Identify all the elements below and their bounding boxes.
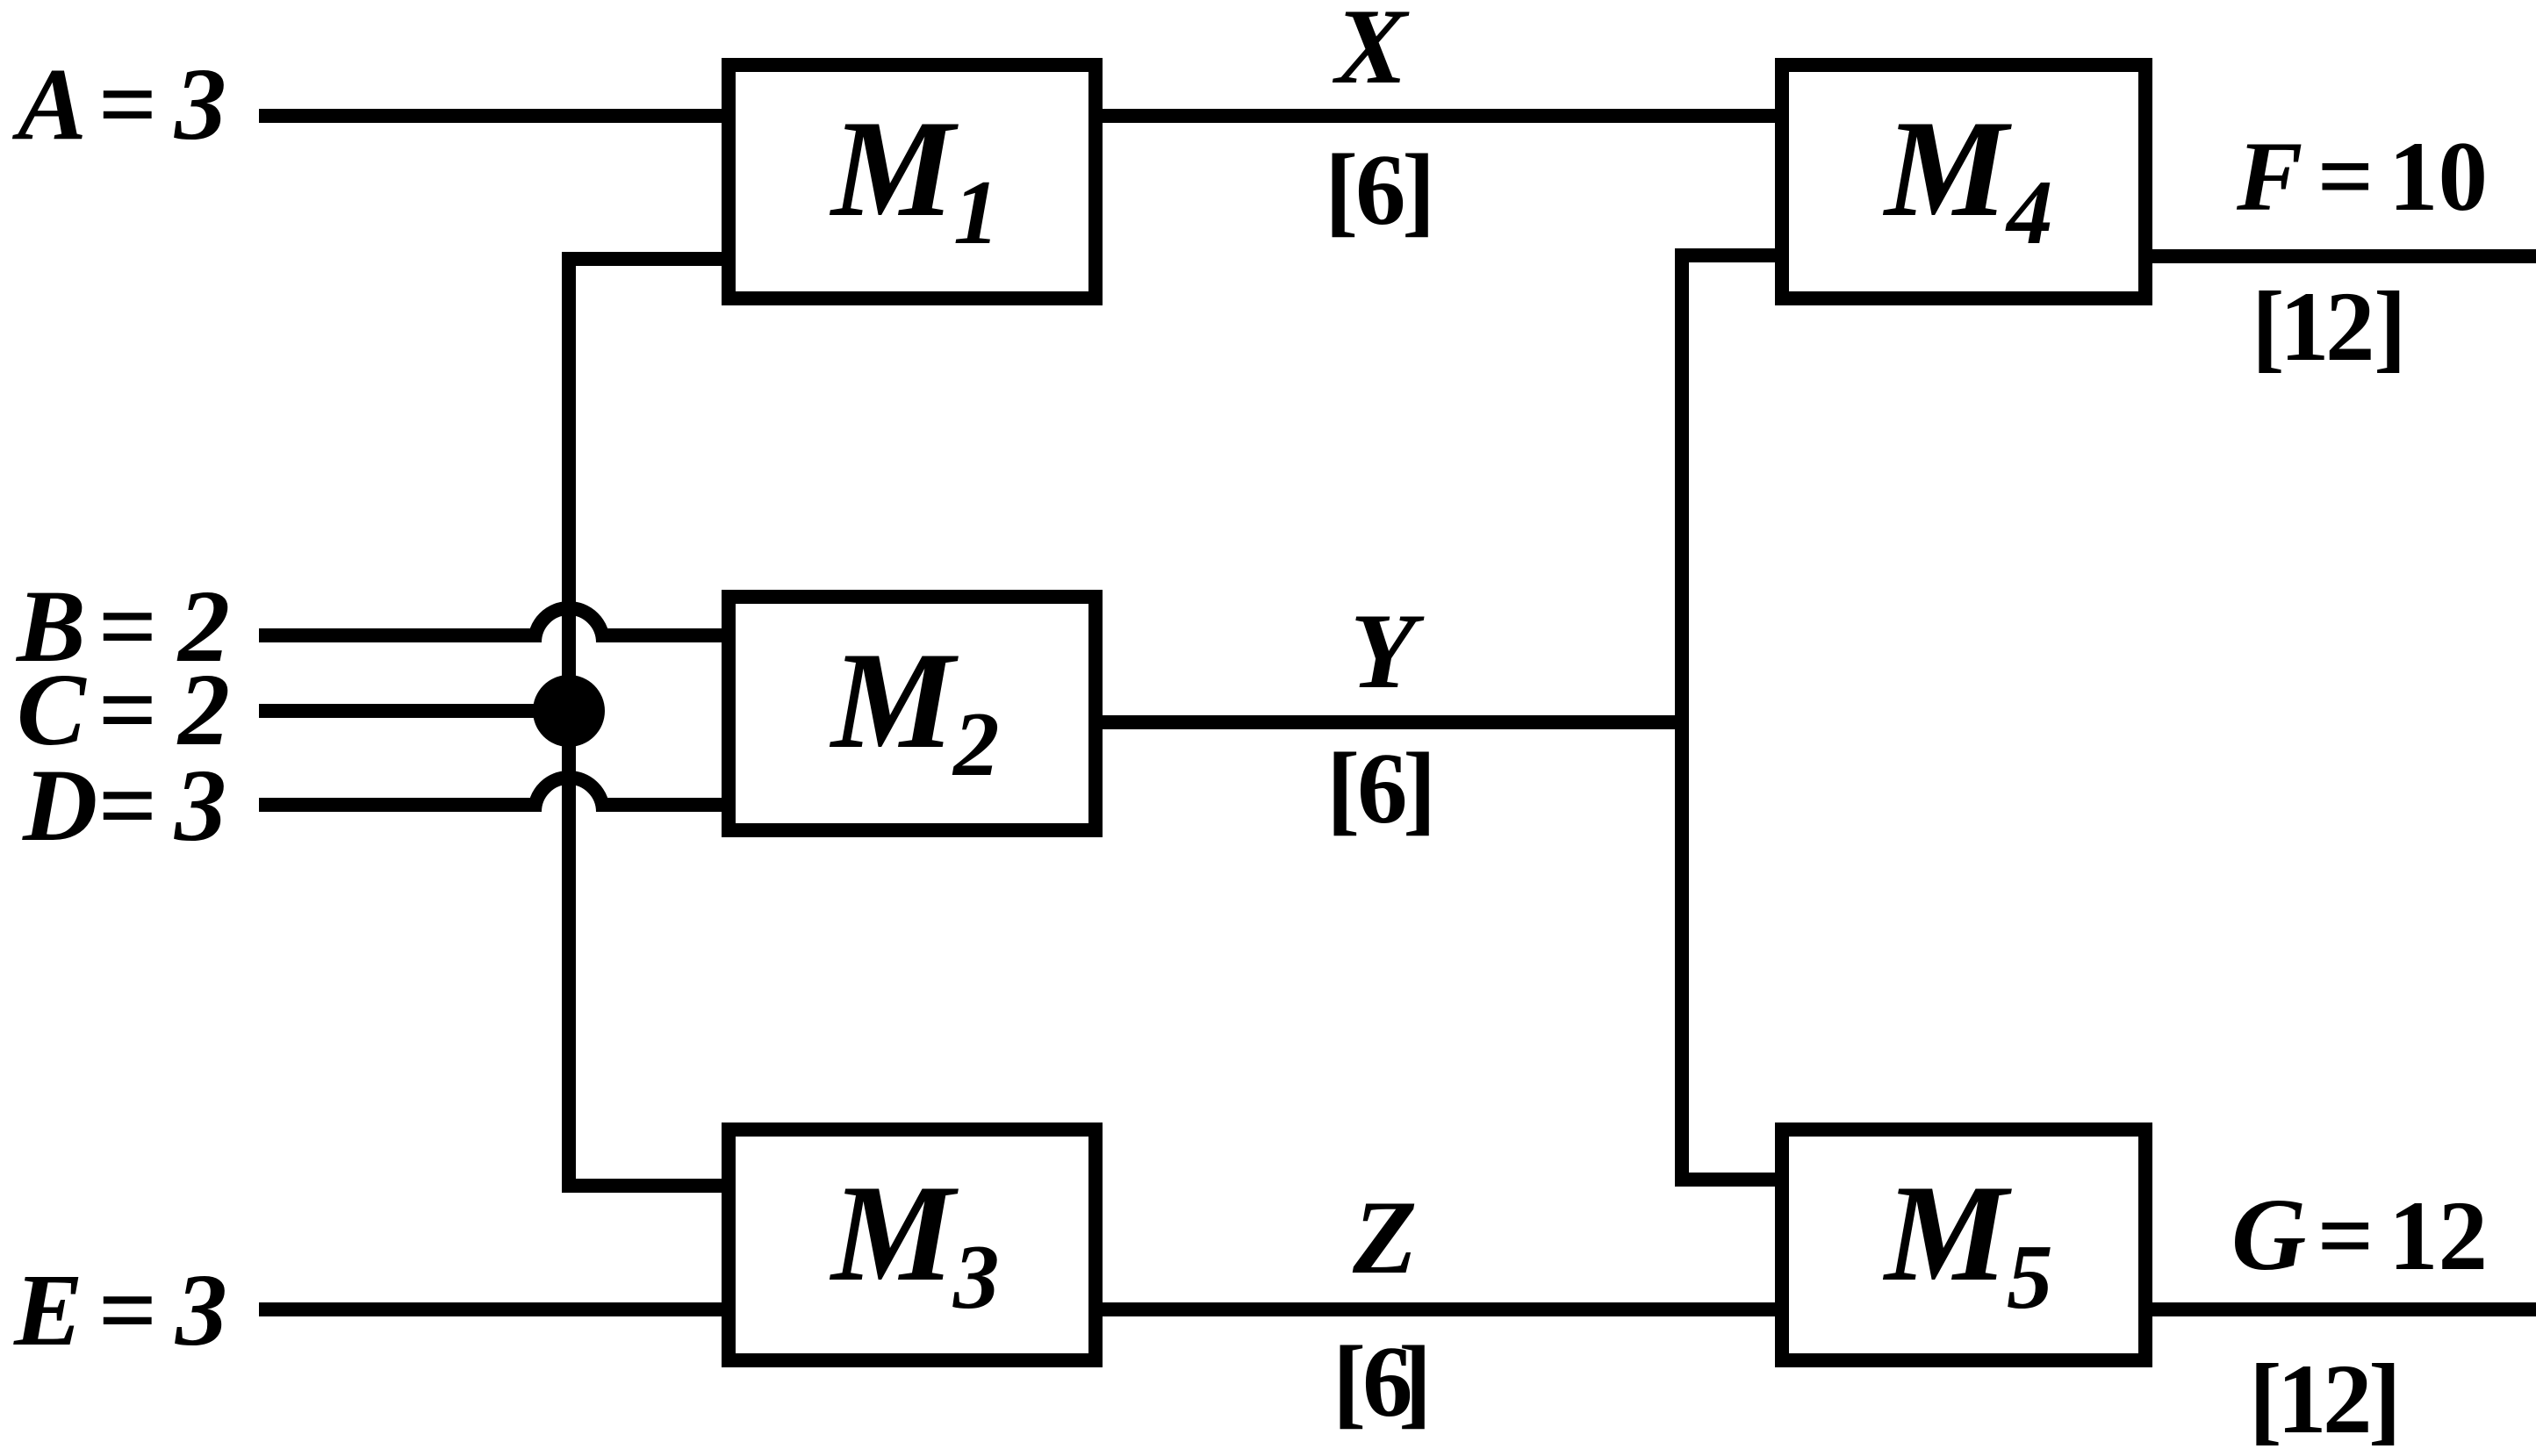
- svg-text:M: M: [1882, 1157, 2012, 1310]
- svg-text:]: ]: [2368, 1345, 2402, 1454]
- svg-text:5: 5: [2007, 1225, 2053, 1328]
- svg-text:3: 3: [175, 1252, 227, 1367]
- svg-text:2: 2: [2323, 1345, 2373, 1454]
- block M1: [729, 65, 1096, 298]
- wire G (M5 output): [2145, 1302, 2536, 1316]
- svg-text:3: 3: [952, 1225, 1000, 1328]
- svg-text:=: =: [97, 748, 156, 863]
- wire bus Y to M4 and M5 inputs: [1682, 255, 1782, 1180]
- wire C (input C to junction node): [259, 704, 576, 718]
- svg-text:]: ]: [2374, 272, 2407, 382]
- svg-text:1: 1: [2280, 272, 2330, 382]
- svg-text:]: ]: [1398, 1326, 1432, 1438]
- svg-text:Z: Z: [1352, 1179, 1417, 1295]
- svg-text:=: =: [2317, 1181, 2373, 1291]
- wire D right segment into M2: [600, 798, 729, 812]
- svg-text:4: 4: [2005, 161, 2053, 263]
- svg-text:10: 10: [2389, 122, 2488, 232]
- wire B hop arc over net C: [535, 608, 603, 642]
- svg-text:]: ]: [1403, 733, 1436, 844]
- svg-text:A: A: [11, 47, 87, 161]
- svg-text:M: M: [829, 92, 959, 246]
- svg-text:M: M: [829, 1157, 959, 1310]
- wire D hop arc over net C: [535, 778, 603, 812]
- svg-text:D: D: [22, 748, 97, 863]
- svg-text:6: 6: [1355, 134, 1406, 246]
- svg-text:M: M: [829, 624, 959, 778]
- wire A (input A into M1): [259, 109, 729, 123]
- wire E (input E into M3): [259, 1302, 729, 1316]
- svg-text:]: ]: [1402, 134, 1435, 246]
- svg-text:M: M: [1882, 92, 2012, 246]
- svg-text:=: =: [97, 1252, 156, 1367]
- wire Z (M3 output to M5 input): [1096, 1302, 1782, 1316]
- svg-text:=: =: [97, 47, 156, 161]
- block M5: [1782, 1130, 2145, 1360]
- svg-text:=: =: [2317, 122, 2373, 232]
- svg-text:[: [: [1326, 733, 1360, 844]
- svg-text:1: 1: [2277, 1345, 2327, 1454]
- block M3: [729, 1130, 1096, 1360]
- wire B right segment into M2: [600, 628, 729, 642]
- svg-text:3: 3: [174, 748, 226, 863]
- block M2: [729, 597, 1096, 830]
- svg-text:[: [: [1333, 1326, 1366, 1438]
- svg-text:E: E: [13, 1252, 83, 1367]
- svg-text:2: 2: [952, 692, 1000, 795]
- wire X (M1 output to M4 input): [1096, 109, 1782, 123]
- svg-text:12: 12: [2389, 1181, 2488, 1291]
- svg-text:3: 3: [174, 47, 226, 161]
- svg-text:Y: Y: [1350, 591, 1425, 711]
- wire Y (M2 output to bus): [1096, 715, 1689, 729]
- wire F (M4 output): [2145, 249, 2536, 263]
- junction dot node C: [533, 675, 605, 747]
- svg-text:6: 6: [1357, 733, 1408, 844]
- wire net C vertical run (up to M1, down to M3): [569, 259, 722, 1186]
- svg-text:1: 1: [953, 161, 1000, 263]
- wire D left segment: [259, 798, 537, 812]
- block M4: [1782, 65, 2145, 298]
- wire B left segment: [259, 628, 537, 642]
- svg-text:F: F: [2236, 122, 2303, 232]
- svg-text:G: G: [2231, 1177, 2306, 1292]
- svg-text:X: X: [1332, 0, 1410, 106]
- svg-text:[: [: [1325, 134, 1358, 246]
- svg-text:2: 2: [2325, 272, 2375, 382]
